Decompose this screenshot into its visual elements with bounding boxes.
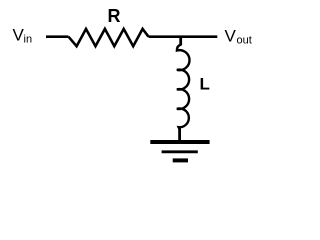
ground [150,142,209,160]
svg-text:L: L [200,75,210,94]
wire input [46,35,69,38]
svg-text:out: out [237,35,252,47]
label Vin [13,26,33,46]
label Vout [225,27,252,47]
resistor R [69,29,149,46]
svg-text:in: in [24,34,33,46]
inductor L [177,45,190,129]
svg-text:R: R [108,6,121,26]
node junction stub [179,37,182,46]
svg-text:V: V [225,27,237,46]
wire output [149,35,218,38]
wire to ground [178,128,181,141]
